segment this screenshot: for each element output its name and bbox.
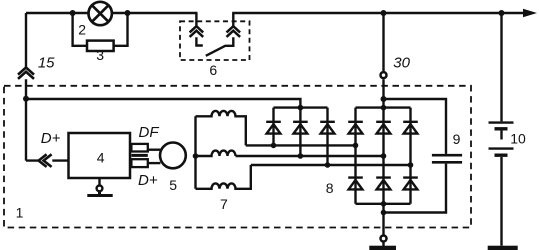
- svg-text:30: 30: [393, 54, 410, 71]
- junction rail 30: [381, 10, 387, 16]
- junction rect bus top: [381, 105, 387, 111]
- rectifier column 3: [409, 108, 411, 204]
- wire pin DF to rotor: [148, 148, 161, 150]
- wire switch left drop: [195, 13, 197, 26]
- ground terminal circle: [381, 236, 387, 242]
- junction phase C rect: [408, 162, 414, 168]
- wire phase B: [236, 155, 384, 157]
- wire capacitor bottom return: [384, 164, 447, 213]
- wire pin D+ to rotor: [148, 162, 161, 164]
- diodes: [266, 122, 418, 190]
- diode VD rect bottom 2: [376, 178, 391, 190]
- regulator ground terminal circle: [97, 186, 103, 192]
- svg-text:D+: D+: [138, 172, 158, 189]
- svg-text:10: 10: [510, 130, 526, 146]
- junction phase B rect: [381, 153, 387, 159]
- wire phase C: [251, 164, 411, 166]
- diode VD rect bottom 3: [403, 178, 418, 190]
- wire D+ to regulator: [26, 159, 70, 161]
- junction rail battery: [499, 10, 505, 16]
- junction phase B aux: [298, 153, 304, 159]
- svg-text:5: 5: [169, 177, 177, 193]
- junction star point: [193, 153, 199, 159]
- diode VD rect top 3: [403, 122, 418, 134]
- wire switch right drop: [232, 13, 234, 26]
- svg-text:3: 3: [96, 47, 104, 63]
- diode VD top row 1: [266, 122, 281, 134]
- rectifier top bus: [356, 106, 411, 108]
- connector chevrons terminal 15: [18, 68, 34, 79]
- stator winding bottom 7c: [196, 165, 251, 189]
- pin D+ rect: [131, 159, 147, 167]
- connector chevrons switch left: [190, 26, 204, 37]
- ground bar center: [369, 246, 396, 250]
- junction capacitor return: [381, 210, 387, 216]
- junction aux bus: [298, 105, 304, 111]
- diode VD rect bottom 1: [348, 178, 363, 190]
- aux diode column 1: [272, 108, 274, 146]
- wire phase A: [246, 144, 356, 146]
- svg-text:8: 8: [326, 180, 334, 196]
- battery cell 2 short plate: [495, 153, 508, 156]
- lamp HL 2 (charge indicator): [89, 2, 112, 25]
- switch blade: [206, 37, 234, 56]
- aux diode column 3: [326, 108, 328, 165]
- connector chevrons switch right: [227, 26, 241, 37]
- svg-text:4: 4: [97, 149, 105, 165]
- dashed box generator 1: [4, 86, 471, 228]
- dashed box switch 6: [180, 21, 250, 60]
- junction bottom bus: [381, 201, 387, 207]
- aux diode column 2: [299, 108, 301, 156]
- junction 15/D+: [23, 96, 29, 102]
- junction lamp left: [70, 10, 76, 16]
- arrow output B+: [523, 9, 537, 18]
- diode VD top row 2: [293, 122, 308, 134]
- wire ground drop center: [382, 204, 384, 235]
- resistor R 3: [87, 41, 114, 51]
- stator star vertical: [194, 116, 196, 189]
- diode VD top row 3: [320, 122, 335, 134]
- switch fixed contact left: [196, 37, 202, 45]
- rectifier bottom bus: [356, 203, 411, 205]
- battery cell 2 long plate: [489, 147, 514, 149]
- wire terminal-30 drop: [382, 13, 384, 71]
- pin DF rect: [131, 144, 147, 152]
- ground bar battery: [488, 246, 518, 250]
- svg-text:DF: DF: [139, 124, 160, 141]
- wire capacitor top feed: [384, 99, 447, 154]
- svg-text:1: 1: [16, 205, 24, 221]
- wire lamp left branch: [73, 13, 87, 46]
- battery mid link: [500, 131, 502, 140]
- svg-text:2: 2: [78, 22, 86, 38]
- diode VD rect top 2: [376, 122, 391, 134]
- svg-text:15: 15: [38, 55, 55, 72]
- wire D+ feed to aux diodes: [26, 99, 300, 108]
- wire terminal-15 vertical lower: [25, 79, 27, 160]
- wire lamp right branch: [114, 13, 128, 46]
- svg-text:6: 6: [209, 62, 217, 78]
- terminal 30 circle: [381, 72, 387, 78]
- stator winding top 7a: [196, 111, 246, 145]
- junction 30/capacitor: [381, 96, 387, 102]
- junction phase C aux: [325, 162, 331, 168]
- capacitor 9 plates: [432, 155, 462, 162]
- wire 30 to rectifier: [382, 79, 384, 204]
- diode VD rect top 1: [348, 122, 363, 134]
- regulator box 4: [69, 133, 131, 178]
- rotor circle 5: [160, 143, 186, 169]
- wire battery drop: [500, 13, 502, 121]
- ground bar under regulator: [87, 192, 112, 196]
- svg-text:7: 7: [220, 196, 228, 212]
- svg-text:9: 9: [453, 131, 461, 147]
- junction phase A aux: [271, 143, 277, 149]
- battery 10 cell 1 long plate: [489, 121, 514, 123]
- regulator ground lead: [98, 178, 100, 185]
- aux diode bus: [274, 106, 328, 108]
- svg-text:D+: D+: [41, 130, 61, 147]
- wire top rail switch-to-arrow: [232, 12, 524, 14]
- wire battery to ground: [500, 157, 502, 246]
- wire top rail lamp-to-switch: [113, 12, 198, 14]
- wire terminal-15 vertical upper: [25, 13, 27, 67]
- junction lamp right: [125, 10, 131, 16]
- battery cell 1 short plate: [495, 127, 508, 130]
- stator winding middle 7b: [196, 151, 236, 156]
- connector chevrons D+ (pointing left): [39, 154, 52, 167]
- pin middle bar: [131, 154, 147, 157]
- wire top rail left: [26, 12, 88, 14]
- rectifier column 1: [354, 108, 356, 204]
- junction phase A rect: [353, 143, 359, 149]
- wire below ground terminal: [382, 243, 384, 247]
